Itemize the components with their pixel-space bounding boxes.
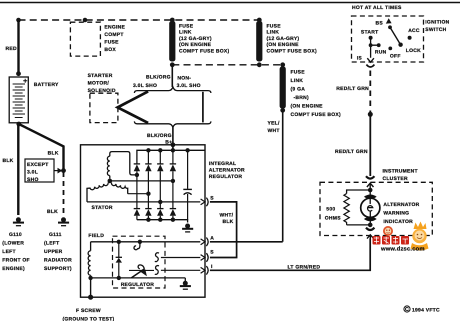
wire non-sho right link [202, 92, 204, 123]
wire RED battery feed [17, 20, 19, 74]
svg-text:3.0L SHO: 3.0L SHO [177, 83, 201, 89]
diode D6 [145, 209, 151, 216]
svg-text:LEFT: LEFT [2, 249, 16, 255]
contact LOCK [398, 43, 402, 47]
wire F screw lead [90, 278, 92, 297]
svg-text:BATTERY: BATTERY [34, 82, 59, 88]
wire to resistor [347, 190, 371, 194]
svg-text:(GROUND TO TEST): (GROUND TO TEST) [63, 316, 115, 321]
svg-text:RED/LT GRN: RED/LT GRN [335, 149, 368, 155]
wire WHT/BLK loop [210, 202, 237, 258]
node splice except-sho [61, 168, 66, 173]
svg-text:STARTER: STARTER [88, 73, 113, 79]
svg-text:F SCREW: F SCREW [76, 308, 101, 314]
node F screw [88, 295, 93, 300]
ground rectifier [182, 224, 193, 232]
wire rectifier ground bus [137, 220, 188, 223]
svg-text:ALTERNATOR: ALTERNATOR [209, 168, 245, 174]
svg-text:FUSE: FUSE [267, 24, 282, 30]
column wires [136, 171, 138, 220]
wire lamp bottom bus [347, 224, 371, 226]
svg-text:S: S [210, 250, 214, 256]
svg-text:IS: IS [357, 56, 363, 62]
svg-text:COMPT FUSE BOX): COMPT FUSE BOX) [267, 48, 318, 54]
contact RUN [371, 38, 379, 58]
node splice ignition feed [368, 112, 373, 117]
svg-text:SHO: SHO [27, 177, 39, 183]
connector ignition output [367, 58, 374, 62]
wire I row [129, 269, 154, 271]
svg-text:OFF: OFF [390, 53, 401, 59]
wire RED/LT GRN solid [369, 114, 371, 176]
svg-text:INDICATOR: INDICATOR [383, 219, 413, 225]
lamp alternator warning indicator [361, 190, 380, 225]
node fuse box tap [83, 18, 88, 23]
page border top [0, 2, 460, 4]
wire S row [161, 257, 200, 259]
node lamp top [368, 188, 373, 193]
brace top sho split [134, 87, 211, 93]
ground G111 [58, 217, 69, 225]
fuse link F3 9GA-BRN [280, 62, 341, 118]
wire A to fuse link [210, 241, 283, 243]
svg-text:(LOWER: (LOWER [2, 241, 24, 247]
connector cluster output [366, 228, 374, 230]
node B+ box entry [171, 142, 176, 147]
diode D1 [134, 150, 149, 193]
diode D5 [134, 209, 140, 216]
hook I row [155, 266, 159, 275]
svg-text:BOX: BOX [104, 47, 116, 53]
brace bottom sho merge [134, 121, 211, 127]
svg-text:C: C [405, 307, 409, 313]
svg-text:IGNITION: IGNITION [425, 20, 449, 26]
resistor 500 ohms [325, 194, 350, 225]
svg-text:LT GRN/RED: LT GRN/RED [288, 264, 321, 270]
svg-text:FUSE: FUSE [104, 40, 119, 46]
svg-text:STATOR: STATOR [92, 205, 113, 211]
ground G110 [13, 217, 24, 225]
wire solenoid to 3.0L SHO branch [118, 91, 149, 123]
svg-text:3.0L SHO: 3.0L SHO [133, 83, 157, 89]
stator windings [87, 152, 137, 211]
svg-text:REGULATOR: REGULATOR [209, 174, 243, 180]
engine compt fuse box [70, 22, 125, 56]
wire stator phase3 to S [87, 201, 200, 203]
svg-text:500: 500 [326, 207, 335, 213]
svg-text:WARNING: WARNING [383, 211, 409, 217]
starter motor solenoid [88, 73, 118, 123]
zener diode D9 [116, 242, 122, 278]
wire B+ bus [137, 150, 205, 163]
border frame remnants drawn later [2, 18, 259, 272]
svg-text:SWITCH: SWITCH [425, 27, 446, 33]
svg-text:(12 GA-GRY): (12 GA-GRY) [179, 36, 212, 42]
svg-text:BLK: BLK [47, 209, 58, 215]
svg-text:BLK/ORG: BLK/ORG [147, 133, 172, 139]
wire RED/LT GRN dashed [369, 71, 371, 113]
svg-text:BLK: BLK [48, 151, 59, 157]
svg-text:ACC: ACC [408, 28, 420, 34]
svg-text:(9 GA: (9 GA [291, 87, 306, 93]
svg-text:REGULATOR: REGULATOR [121, 282, 155, 288]
copyright [404, 306, 410, 312]
svg-text:FRONT OF: FRONT OF [2, 257, 30, 263]
wire stator centre tap [110, 180, 173, 182]
ground regulator [180, 278, 191, 289]
node battery tap [16, 18, 21, 23]
svg-text:COMPT FUSE BOX): COMPT FUSE BOX) [179, 48, 230, 54]
fuse link F2 12GA-GRY [256, 18, 317, 68]
svg-text:RED: RED [6, 46, 17, 52]
watermark mascot [414, 222, 427, 230]
terminal A [201, 236, 215, 247]
svg-text:INSTRUMENT: INSTRUMENT [383, 169, 418, 175]
svg-text:RUN: RUN [375, 50, 387, 56]
wire A row [91, 241, 201, 243]
svg-text:SUPPORT): SUPPORT) [44, 266, 72, 272]
watermark text weiku [373, 236, 410, 245]
svg-text:FUSE: FUSE [291, 70, 306, 76]
svg-text:(ON ENGINE: (ON ENGINE [291, 104, 324, 110]
wire LT GRN/RED [210, 239, 370, 271]
svg-text:HOT AT ALL TIMES: HOT AT ALL TIMES [352, 5, 402, 11]
svg-text:FUSE: FUSE [179, 24, 194, 30]
terminal I [201, 264, 213, 275]
svg-text:G111: G111 [49, 232, 62, 238]
svg-text:www.dzsc.com: www.dzsc.com [380, 246, 425, 253]
alternator box U1 [81, 145, 206, 297]
switch arm with arrow [386, 18, 401, 45]
transistor Q2 [131, 265, 147, 278]
svg-text:CLUSTER: CLUSTER [383, 176, 409, 182]
svg-text:BLK/ORG: BLK/ORG [146, 75, 171, 81]
diode D3 [157, 164, 163, 171]
terminal S lower [201, 250, 215, 262]
svg-text:OHMS: OHMS [325, 216, 341, 222]
svg-text:BS: BS [376, 20, 384, 26]
svg-text:A: A [210, 236, 214, 242]
wire dashed fuselink bus [172, 64, 282, 66]
svg-text:RADIATOR: RADIATOR [44, 257, 72, 263]
diode D8 [170, 209, 176, 216]
wire BLK battery to G111 diagonal [19, 124, 64, 171]
svg-text:BLK: BLK [223, 219, 234, 225]
svg-text:START: START [361, 30, 379, 36]
wire field return row [91, 277, 186, 279]
svg-text:COMPT FUSE BOX): COMPT FUSE BOX) [291, 112, 342, 118]
hook S row [155, 253, 159, 262]
wire stator phase1 [135, 173, 139, 177]
svg-text:ALTERNATOR: ALTERNATOR [383, 202, 419, 208]
svg-text:LOCK: LOCK [406, 48, 421, 54]
transistor hook Q1 [134, 242, 140, 250]
svg-text:(12 GA-GRY): (12 GA-GRY) [267, 36, 300, 42]
svg-text:(LEFT: (LEFT [44, 241, 59, 247]
diode D4 [170, 150, 176, 171]
except 3.0L SHO box [25, 159, 62, 183]
svg-text:S: S [210, 196, 214, 202]
connector cluster input [366, 176, 374, 178]
svg-text:ENGINE: ENGINE [104, 25, 125, 31]
terminal S upper [201, 196, 215, 207]
diode D7 [157, 209, 163, 216]
capacitor C1 [183, 150, 192, 219]
svg-text:YEL/: YEL/ [268, 121, 280, 127]
svg-text:UPPER: UPPER [44, 249, 63, 255]
svg-text:1994 VFTC: 1994 VFTC [412, 308, 440, 314]
svg-text:LINK: LINK [267, 30, 280, 36]
svg-text:WHT: WHT [268, 128, 280, 134]
svg-text:INTEGRAL: INTEGRAL [209, 161, 237, 167]
svg-text:-BRN): -BRN) [294, 95, 309, 101]
fuse link F1 12GA-GRY [169, 18, 229, 68]
svg-text:FIELD: FIELD [88, 233, 104, 239]
node battery negative [16, 122, 21, 127]
svg-text:COMPT: COMPT [104, 32, 123, 38]
regulator box [113, 236, 166, 288]
wire BLK/ORG B+ [172, 127, 174, 150]
node battery positive [16, 71, 21, 76]
svg-text:(ON ENGINE: (ON ENGINE [267, 42, 300, 48]
wire stator phase2 [128, 193, 149, 195]
svg-text:BLK: BLK [3, 158, 14, 164]
wire BLK/ORG from F1 [171, 65, 173, 87]
svg-text:RED/LT GRN: RED/LT GRN [336, 86, 369, 92]
wire BLK dashed to G111 [63, 172, 65, 215]
field winding [88, 233, 104, 278]
wire BLK battery to G110 [17, 123, 19, 215]
svg-text:LINK: LINK [179, 30, 192, 36]
svg-text:(ON ENGINE: (ON ENGINE [179, 42, 212, 48]
battery [9, 77, 59, 123]
svg-text:ENGINE): ENGINE) [2, 266, 25, 272]
svg-text:3.0L: 3.0L [27, 170, 38, 176]
svg-text:NON-: NON- [177, 76, 191, 82]
wire YEL/WHT [282, 110, 284, 242]
diode D2 [145, 164, 151, 171]
svg-text:MOTOR/: MOTOR/ [88, 81, 110, 87]
wire hot bus dashed top [19, 19, 260, 21]
svg-text:EXCEPT: EXCEPT [27, 162, 49, 168]
svg-text:LINK: LINK [291, 78, 304, 84]
svg-text:WHT/: WHT/ [220, 213, 234, 219]
watermark seal [383, 226, 393, 236]
contact OFF [388, 47, 392, 51]
svg-text:G110: G110 [9, 232, 22, 238]
